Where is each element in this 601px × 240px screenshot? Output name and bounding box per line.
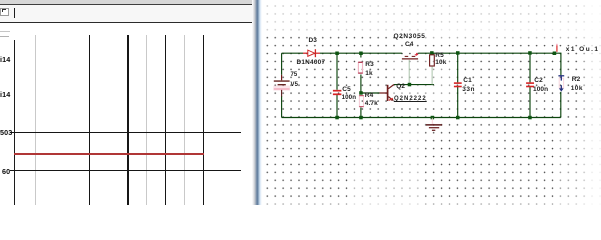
wire top rail left segment <box>282 52 303 54</box>
faint zone bottom middle <box>352 129 425 205</box>
label C4 <box>405 42 414 49</box>
dark line under title <box>0 4 257 5</box>
wire collector horizontal <box>394 84 434 86</box>
wire bottom rail <box>282 117 561 119</box>
wire top rail right segment <box>418 52 554 54</box>
small gray dash below toolbar <box>0 31 10 32</box>
C4 red pin mark <box>415 53 418 56</box>
wire R3 top pin <box>360 53 362 57</box>
toolbar bottom dark line <box>0 22 255 23</box>
node bottom C5 <box>335 116 339 120</box>
node top R5 <box>430 51 434 55</box>
node bottom C1 <box>456 116 460 120</box>
output pin marker X1 <box>556 45 558 52</box>
axis tick labels (clipped) <box>0 56 10 63</box>
window right border (blue gradient bar) <box>252 0 262 205</box>
wire top rail mid segment <box>320 52 402 54</box>
capacitor C2 plates <box>526 83 534 86</box>
label R4 <box>365 93 374 100</box>
ground <box>431 118 433 125</box>
plot vertical gridlines <box>14 40 15 206</box>
wire top-right jog to R2 <box>555 53 561 75</box>
label D3 <box>309 38 318 45</box>
resistor R5 <box>430 55 435 66</box>
node base divider <box>359 91 363 95</box>
capacitor C4 (in top rail gap) <box>402 58 418 60</box>
label C2 <box>534 78 543 85</box>
faint zone middle interior <box>390 55 455 105</box>
label 1k <box>365 71 372 78</box>
red trace <box>14 153 204 155</box>
Q2 emitter red pin mark <box>389 98 393 100</box>
battery V5 bottom pin <box>281 90 283 97</box>
node top C1 <box>456 51 460 55</box>
label 4.7k <box>365 101 378 108</box>
faint bottom row <box>262 199 601 205</box>
wire R3 bottom to base node <box>360 75 362 92</box>
wire left edge bottom (battery bottom) <box>281 96 283 118</box>
label X1 OUT <box>566 47 600 54</box>
label C1 <box>463 78 472 85</box>
wire C5 branch lower <box>336 95 338 118</box>
node top C2 <box>528 51 532 55</box>
battery V5 top pin <box>281 75 283 81</box>
wire C2 branch upper <box>529 53 531 82</box>
wire C1 branch upper <box>457 53 459 82</box>
label 10k (R5) <box>435 60 446 67</box>
toolbar band <box>0 5 256 22</box>
cursor bar <box>14 8 15 18</box>
battery V5 pink bar <box>274 88 290 90</box>
faint pin C4 down to collector wire <box>408 60 410 85</box>
capacitor C1 plates <box>454 83 462 86</box>
node top X1 out <box>553 52 557 56</box>
battery V5 long plate <box>274 80 290 82</box>
wire R2 bottom to rail <box>560 92 562 118</box>
battery V5 selection glow <box>273 86 290 91</box>
node top R3 <box>359 52 363 56</box>
battery V5 short plate <box>278 84 286 86</box>
label 75 <box>291 72 298 79</box>
label R3 <box>365 62 374 69</box>
label C5 <box>342 87 351 94</box>
node bottom R4 <box>359 116 363 120</box>
plot horizontal lines <box>10 132 241 133</box>
transistor Q2 <box>380 85 394 102</box>
wire C2 branch lower <box>529 87 531 118</box>
node bottom C2 <box>528 116 532 120</box>
label R2 <box>572 77 581 84</box>
node bottom ground <box>431 116 435 120</box>
wire left edge top (battery top) <box>281 53 283 75</box>
wire base from node <box>363 92 380 94</box>
resistor R4 (selected pink) <box>359 96 363 107</box>
label Q2N3055 <box>394 34 426 41</box>
title strip top gray <box>0 0 257 4</box>
faint zone top right <box>422 28 601 45</box>
resistor R2 (selected, blue pins) <box>559 78 563 88</box>
toolbar icon box <box>0 8 9 17</box>
wire C1 branch lower <box>457 87 459 118</box>
label 33n <box>462 87 475 94</box>
label V5 <box>291 82 299 89</box>
wire C5 branch upper <box>336 53 338 90</box>
wire R4 bottom <box>360 108 362 118</box>
diode D3 <box>303 49 320 57</box>
label R5 <box>435 53 444 60</box>
tick dash at top of axis <box>0 36 9 37</box>
label 100n (C2) <box>533 87 548 94</box>
label D1N4007 <box>297 60 326 67</box>
faint zone whole top band <box>262 0 601 31</box>
node collector <box>408 83 412 87</box>
resistor R3 (selected pink) <box>358 62 362 73</box>
node top C5 <box>335 52 339 56</box>
label Q2 <box>396 84 405 91</box>
fade of dots at right edge <box>576 0 601 205</box>
label Q2N2222 underlined <box>394 96 427 102</box>
faint pin R5 down to collector wire <box>431 66 433 84</box>
dotted grid <box>262 0 601 205</box>
capacitor C5 plates <box>333 91 342 95</box>
label 10k (R2) <box>571 86 583 93</box>
faint zone bottom right <box>558 129 601 205</box>
label 100n <box>342 95 357 102</box>
